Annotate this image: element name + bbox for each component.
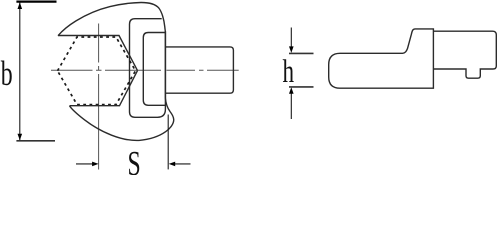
dimension b: top arrowhead (18, 2, 23, 9)
side view: head + neck profile (329, 29, 434, 88)
svg-text:h: h (283, 54, 295, 90)
dimension S: right extension line (167, 115, 169, 170)
dimension S: left arrow (76, 163, 93, 165)
svg-text:S: S (128, 145, 141, 175)
dimension h: bottom arrow (pointing up) (290, 93, 292, 119)
vertical centerline / S left extension line (98, 24, 100, 170)
dimension b: bottom extension line (16, 140, 55, 142)
jaw opening solid profile (58, 36, 138, 106)
insert body outer rounded rect (front view) (130, 19, 166, 118)
dimension b: vertical dimension line (19, 2, 21, 140)
hexagon S (dashed, across flats) (58, 37, 136, 105)
dimension h: bottom extension line (289, 86, 314, 88)
dimension b: top extension line (16, 1, 56, 3)
wrench head outline (front view) (58, 2, 174, 140)
dimension S: right arrow (174, 163, 191, 165)
dimension h: top extension line (289, 52, 314, 54)
side view: insert body with spring pin tab (433, 31, 496, 78)
dimension b: bottom arrowhead (18, 134, 23, 141)
svg-text:b: b (1, 55, 13, 94)
shank rectangle (front view) (166, 47, 234, 93)
dimension h: top arrow (pointing down) (290, 28, 292, 48)
insert body inner rounded rect (front view) (143, 33, 165, 106)
horizontal centerline (front view) (51, 69, 239, 71)
